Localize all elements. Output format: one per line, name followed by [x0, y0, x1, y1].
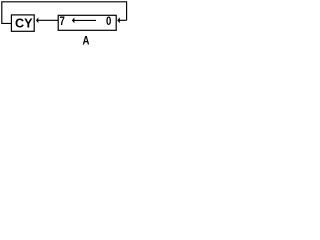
- svg-text:CY: CY: [15, 17, 33, 31]
- wire feedback loop from CY around top to bit 0: [2, 2, 127, 24]
- register box A: [58, 15, 116, 30]
- wire shift-direction arrow inside register: [74, 19, 96, 21]
- wire arrow from loop into bit 0: [119, 19, 126, 21]
- svg-text:A: A: [83, 35, 90, 48]
- svg-text:7: 7: [60, 15, 65, 28]
- background: [0, 0, 129, 48]
- svg-text:0: 0: [106, 15, 111, 28]
- wire arrow from bit 7 to CY: [38, 19, 58, 21]
- carry box CY: [11, 15, 34, 31]
